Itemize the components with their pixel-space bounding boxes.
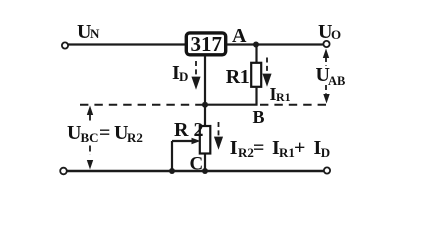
svg-text:317: 317 (191, 32, 223, 56)
voltage U_AB dashed arrow up head (323, 49, 329, 59)
wire: bottom rail (67, 170, 324, 172)
wire: ADJ vertical from box bottom to bottom rail (204, 56, 206, 171)
svg-text:=: = (253, 137, 264, 159)
svg-text:+: + (294, 137, 305, 159)
current I_R1 dashed arrow (264, 58, 271, 85)
resistor R1 top lead (255, 45, 257, 65)
junction dot at node A (253, 42, 259, 48)
wiper of R2: arrowhead (192, 138, 201, 145)
svg-text:N: N (90, 26, 100, 41)
wire: output top rail (227, 43, 324, 45)
wire: input top rail (68, 43, 186, 45)
terminal: bottom-left open circle (60, 168, 67, 175)
svg-text:R: R (226, 66, 241, 88)
wire: node B to ADJ line (205, 104, 258, 106)
junction dot wiper to bottom rail (169, 168, 175, 174)
svg-text:1: 1 (240, 66, 250, 88)
resistor R2 body (200, 126, 211, 154)
svg-text:R1: R1 (276, 90, 291, 104)
junction dot ADJ (202, 102, 208, 108)
terminal: bottom-right open circle (324, 167, 330, 173)
voltage U_BC dashed arrow down head (87, 160, 93, 170)
svg-text:U: U (67, 122, 81, 144)
regulator U1 box (186, 33, 225, 55)
svg-text:B: B (253, 107, 265, 127)
svg-text:R2: R2 (127, 130, 143, 145)
svg-text:A: A (232, 25, 247, 47)
svg-text:=: = (99, 122, 110, 144)
voltage U_AB dashed arrow down head (323, 94, 329, 104)
svg-text:BC: BC (81, 130, 99, 145)
resistor R1 body (251, 63, 261, 87)
svg-text:R 2: R 2 (174, 119, 203, 141)
voltage U_BC dashed arrow up head (87, 106, 93, 116)
wiper of R2: vertical return wire (171, 141, 173, 171)
current I_D dashed arrow (193, 61, 200, 87)
voltage U_AB dashed arrow upper dashes (325, 57, 327, 66)
voltage U_BC dashed arrow upper dash (89, 115, 91, 124)
svg-text:R1: R1 (279, 145, 295, 160)
current I_R2 dashed arrow (right of R2) (215, 122, 222, 147)
svg-text:I: I (230, 137, 238, 159)
svg-text:O: O (331, 27, 341, 42)
svg-text:R2: R2 (238, 145, 254, 160)
terminal: input open circle (62, 42, 68, 48)
svg-text:AB: AB (328, 74, 345, 88)
svg-text:D: D (179, 69, 188, 84)
dashed reference line through B (right part) (260, 104, 330, 106)
svg-text:D: D (321, 145, 330, 160)
wiper of R2: horizontal arm (172, 140, 195, 142)
junction dot node C (202, 168, 208, 174)
voltage U_BC dashed arrow lower dash (89, 146, 91, 156)
dashed reference line through B (left part) (80, 104, 205, 106)
resistor R1 bottom lead (255, 87, 257, 106)
terminal: output open circle (323, 41, 329, 47)
voltage U_AB dashed arrow lower dashes (325, 85, 327, 95)
